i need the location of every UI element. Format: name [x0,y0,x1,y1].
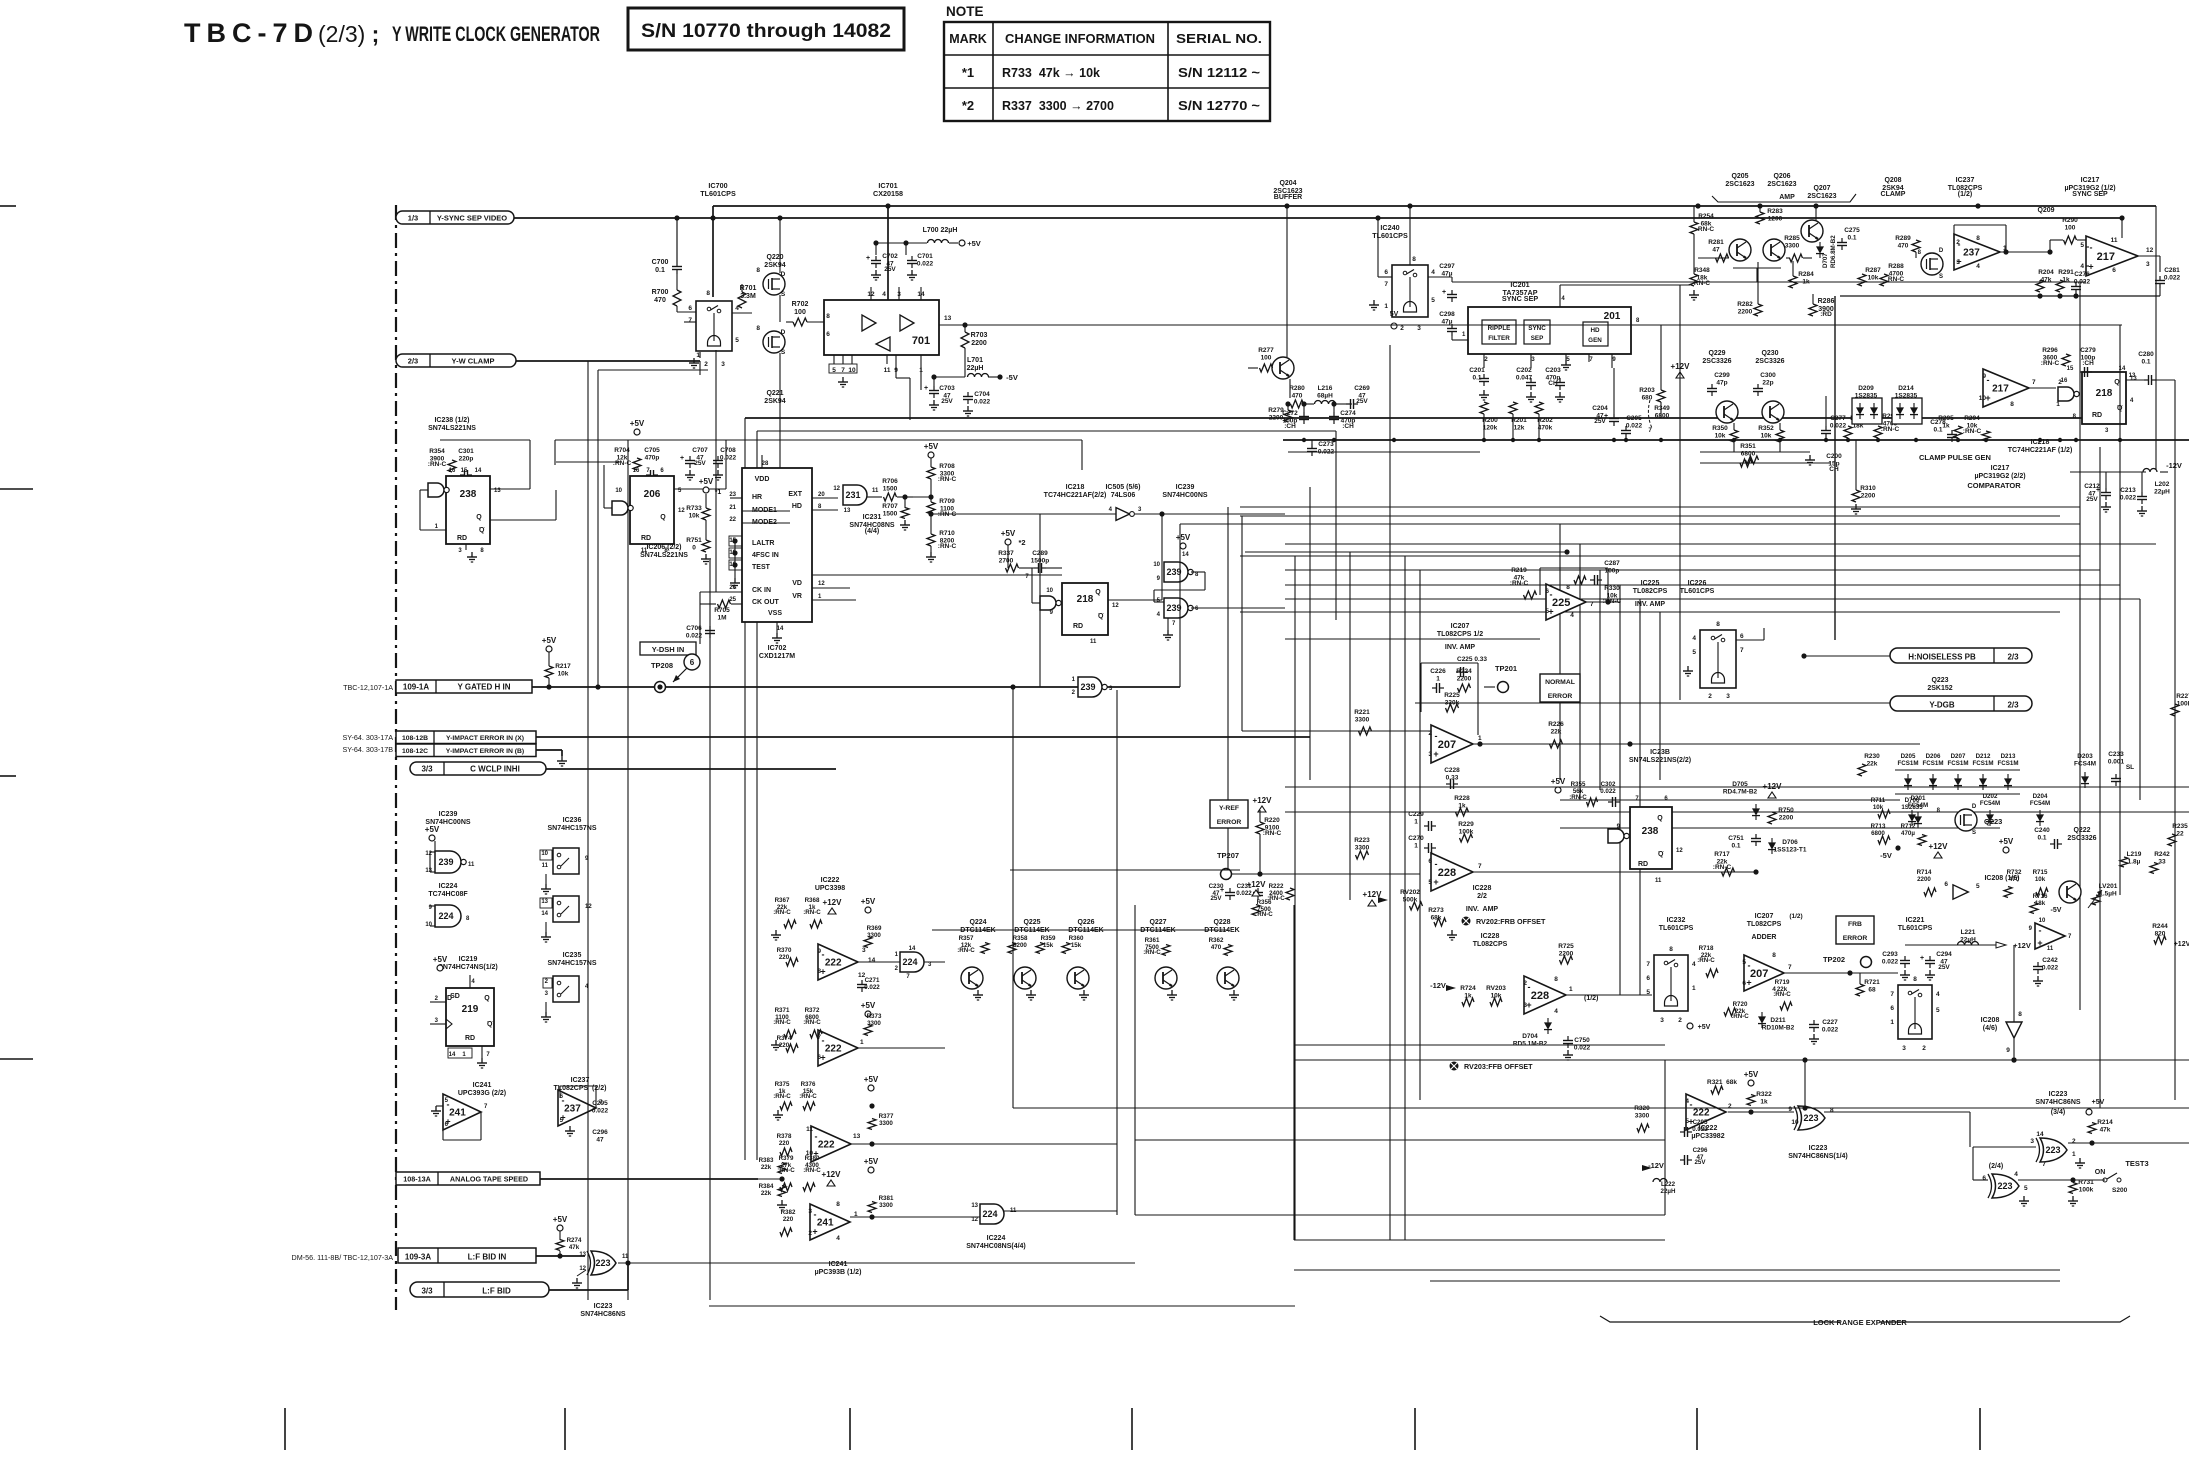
svg-text:VSS: VSS [768,610,782,617]
wire 237 out [2000,251,2050,253]
svg-text:LV201: LV201 [2099,883,2118,890]
flag 3/3 L:F BID [410,1282,549,1297]
svg-text:R358: R358 [1013,935,1028,942]
svg-text:217: 217 [1992,384,2009,395]
wire mesh h6 [1285,638,1540,640]
svg-text:2: 2 [1956,239,1960,246]
resistor R703 2200 [961,332,969,348]
svg-text:11: 11 [542,863,549,869]
svg-text:4: 4 [1692,961,1696,968]
wire 217 inputs [2086,246,2089,248]
svg-text:4: 4 [1431,269,1435,276]
svg-text:7: 7 [1646,961,1650,968]
svg-text:2SC3326: 2SC3326 [1755,358,1784,365]
gate at 218 input [1040,596,1056,610]
svg-text:4: 4 [1692,635,1696,642]
svg-text:10: 10 [1046,588,1053,594]
wire IC238 input [420,489,428,491]
svg-text:S: S [1939,274,1943,280]
wire mesh h5 [1240,611,2060,613]
wire amp line y262 [1690,261,1700,263]
wire vertical x1665 [1664,1060,1666,1215]
svg-text:+5V: +5V [630,419,645,428]
svg-text:IC207: IC207 [1755,913,1774,920]
svg-text:+12V: +12V [1253,796,1273,805]
capacitor C703 47 25V [929,390,939,392]
svg-text:R702: R702 [792,301,809,308]
svg-text:68µH: 68µH [1317,392,1333,399]
svg-text:-5V: -5V [1006,373,1018,382]
power +5V right [2003,847,2009,853]
amp C inverted inside IC701 [876,337,890,351]
svg-text:R376: R376 [801,1081,816,1088]
wire mesh v7 [1559,524,1561,780]
ground C701 [911,270,913,275]
svg-text:R374: R374 [777,1035,792,1042]
svg-text:239: 239 [438,857,453,867]
svg-text:S: S [781,349,786,356]
svg-text:225: 225 [1552,597,1570,609]
svg-text:VDD: VDD [755,476,770,483]
svg-text:R716: R716 [2033,893,2048,900]
wire gate239 input loop [434,841,436,852]
svg-text:R227: R227 [2176,693,2189,700]
svg-text:D707: D707 [1822,253,1829,268]
svg-text:R709: R709 [939,498,955,505]
wire Q220 drain [779,266,781,273]
svg-text:R711: R711 [1871,797,1886,804]
svg-text:IC207: IC207 [1451,623,1470,630]
wire transistor row base bus [938,972,962,974]
ground Y-IMPACT stub [561,756,563,761]
svg-text:217: 217 [2097,251,2115,263]
svg-text:CLAMP PULSE GEN: CLAMP PULSE GEN [1919,453,1991,462]
svg-text:2200: 2200 [1917,876,1931,883]
wire mesh v1 [1294,556,1296,1240]
svg-text:R371: R371 [775,1007,790,1014]
flag 109-3A L:F BID IN [398,1248,536,1263]
op-amp IC237 237 [1954,234,2000,270]
wire 207 in [1242,730,1431,732]
arrow from circled 6 [673,668,687,682]
svg-text:201: 201 [1604,311,1621,322]
power +12V L221 [1996,942,2006,948]
svg-text::RN-C: :RN-C [428,461,447,468]
svg-text:25V: 25V [2086,496,2098,503]
svg-text:11: 11 [806,1126,813,1133]
svg-text:R383: R383 [759,1157,774,1164]
power +12V D705 [1768,792,1776,798]
wire mesh v6 [1419,570,1421,1100]
ground mux b [545,922,547,932]
svg-text:S: S [781,291,786,298]
wire long bus y452 [1288,451,1480,453]
svg-text:R732: R732 [2007,869,2022,876]
ground C707 [689,470,691,475]
svg-text:25V: 25V [694,460,706,467]
svg-text:C296: C296 [1693,1147,1708,1154]
wire y737 extension right [1309,725,1311,737]
svg-text:Q230: Q230 [1761,350,1778,357]
flag 1/3 Y-SYNC SEP VIDEO [396,211,514,224]
svg-text:470: 470 [2009,876,2020,883]
wire 223 out [618,1262,1135,1264]
HD GEN sub-box [1583,322,1608,346]
svg-text:11: 11 [1090,639,1097,645]
svg-text:HD: HD [792,503,802,510]
wire 228b out [1566,994,1652,996]
svg-text:4: 4 [836,1235,840,1242]
svg-text:12: 12 [678,508,685,514]
junction R217 on Y GATED bus [546,684,551,689]
svg-text:231: 231 [845,490,860,500]
svg-text:Y-IMPACT ERROR IN (X): Y-IMPACT ERROR IN (X) [446,735,524,742]
wire horizontal y1060 long [1294,1059,2189,1061]
svg-text:R330: R330 [1604,585,1620,592]
wire IC206 input [604,507,612,509]
wire Q out right [2156,379,2175,381]
svg-text:-: - [1987,375,1990,385]
svg-text:10: 10 [1791,1119,1799,1126]
svg-text:5: 5 [2024,1185,2028,1192]
svg-text:2SC3326: 2SC3326 [1702,358,1731,365]
wire ANALOG TAPE SPEED riser [758,1178,782,1180]
svg-text:R375: R375 [775,1081,790,1088]
svg-text:LOCK RANGE EXPANDER: LOCK RANGE EXPANDER [1813,1318,1907,1327]
left margin register tick marks [0,205,16,207]
svg-text:+12V: +12V [2174,941,2189,948]
wire 237 feedback box [1953,225,1955,244]
svg-text:R359: R359 [1041,935,1056,942]
svg-text:10: 10 [615,488,622,494]
svg-text:C703: C703 [939,385,955,392]
svg-text::RN-C: :RN-C [957,947,975,954]
clock wedge [446,1019,452,1029]
op-amp 222d [1686,1094,1726,1130]
gate IC239 NAND b [1164,598,1188,618]
svg-text:238: 238 [1642,826,1659,837]
ground IC226 [1688,663,1700,665]
svg-text:R284: R284 [1798,271,1814,278]
wire y452 mid [1700,451,1810,453]
svg-text:C279: C279 [2080,347,2096,354]
wire R277 input [1248,367,1258,369]
ground R375 [777,1110,779,1115]
svg-text:+: + [1442,289,1446,296]
svg-text:µPC319G2 (2/2): µPC319G2 (2/2) [1974,473,2025,480]
svg-text:+12V: +12V [1763,782,1783,791]
svg-text:IC237: IC237 [1956,177,1975,184]
diode D705 [1752,808,1760,815]
svg-text:4: 4 [882,291,886,298]
svg-text:C700: C700 [652,259,669,266]
svg-text:S/N 10770 through 14082: S/N 10770 through 14082 [641,20,891,42]
wire IC701 to IC240 line [965,324,1392,326]
power +5V IC239 [1180,543,1186,549]
svg-text:4FSC IN: 4FSC IN [752,552,779,559]
svg-text:1k: 1k [1458,802,1466,809]
svg-text:L222: L222 [1661,1181,1676,1188]
svg-text:+: + [1920,955,1924,962]
svg-text:0.1: 0.1 [2141,358,2150,365]
ground IC235 [545,1002,547,1012]
svg-text:RIPPLE: RIPPLE [1488,325,1511,332]
svg-text:0.1: 0.1 [2037,834,2046,841]
wire C298 to IC201 pin1 [1451,336,1453,340]
svg-text:FCS1M: FCS1M [1923,760,1944,767]
svg-text:5: 5 [2080,242,2084,249]
svg-text:(2/4): (2/4) [1989,1163,2003,1170]
svg-text:7: 7 [1788,964,1792,971]
monostable 218 right box [2082,372,2126,424]
svg-text:R705: R705 [714,607,730,614]
monostable IC206 206 box [630,476,674,544]
gate at IC206 input [612,501,628,515]
wire vertical x1835 dark [1834,296,1836,640]
svg-text:R372: R372 [805,1007,820,1014]
svg-text:3300: 3300 [1355,716,1370,723]
transistor Q227 [1155,967,1177,989]
svg-text:(1/2): (1/2) [1958,191,1972,198]
svg-text:2200: 2200 [1269,414,1284,421]
wire gate224 input loop [434,906,436,926]
svg-text:IC236: IC236 [563,817,582,824]
svg-text:10: 10 [541,851,548,857]
svg-text::RN-C: :RN-C [2041,360,2060,367]
wire bottom bus y1240 right [1294,1239,1665,1241]
svg-text:7: 7 [1384,281,1388,288]
power +5V R708 [928,452,934,458]
RIPPLE FILTER sub-box [1482,320,1516,344]
svg-text:L:F BID: L:F BID [482,1287,511,1296]
svg-text:R220: R220 [1264,817,1280,824]
wire vertical x1973b [1972,1112,1974,1147]
svg-text:SERIAL NO.: SERIAL NO. [1176,32,1262,46]
svg-text:D209: D209 [1858,385,1874,392]
wire mesh h3 [1285,584,2120,586]
flip-flop IC219 219 box [446,988,494,1046]
svg-text:R379: R379 [779,1155,794,1162]
svg-text:R719: R719 [1775,979,1790,986]
svg-text:470: 470 [1898,242,1909,249]
transistor Q204 [1272,357,1294,379]
wire long bus y440 [1283,439,2189,441]
svg-text:0.022: 0.022 [2164,274,2181,281]
svg-text::RN-C: :RN-C [1731,1013,1749,1020]
wire y867 line [1240,866,1431,868]
transistor Q230 [1762,401,1784,423]
svg-text:R354: R354 [429,448,445,455]
svg-text:R377: R377 [879,1113,894,1120]
svg-text:RV202:FRB OFFSET: RV202:FRB OFFSET [1476,917,1546,926]
svg-text:(4/4): (4/4) [865,528,879,535]
svg-text::CH: :CH [2082,360,2094,367]
svg-text:10k: 10k [1868,274,1879,281]
wire TP207 line [1232,873,1420,875]
svg-text:6: 6 [1982,1175,1986,1182]
svg-text:100: 100 [1261,354,1272,361]
wire mesh v2 [1309,487,1311,780]
svg-text::RN-C: :RN-C [613,460,632,467]
svg-text:470p: 470p [645,454,660,461]
wire right margin v6 [2174,470,2176,1100]
wire 207 out [1473,743,1920,745]
svg-text:(3/4): (3/4) [2051,1109,2065,1116]
svg-text:SN74LS221NS: SN74LS221NS [428,425,476,432]
svg-text:IC241: IC241 [829,1261,848,1268]
inverter IC505 [1116,508,1130,521]
gate 239 on Y GATED line [1078,677,1102,697]
svg-text:470k: 470k [1538,424,1553,431]
svg-text:IC239: IC239 [439,811,458,818]
svg-text:SN74LS221NS: SN74LS221NS [640,552,688,559]
svg-text:S: S [1972,830,1976,836]
svg-text:25V: 25V [1938,964,1950,971]
svg-text:SN74HC00NS: SN74HC00NS [1162,492,1207,499]
svg-text:4: 4 [1936,991,1940,998]
svg-text:10k: 10k [1715,432,1726,439]
svg-text:+12V: +12V [2013,941,2031,950]
wire y282 long [1452,281,2086,283]
svg-text:D: D [1939,248,1944,254]
junction pins LALTR [732,538,737,543]
svg-text:5: 5 [1685,1118,1689,1125]
svg-text:47k: 47k [2100,1126,2111,1133]
wire into H:NOISELESS flag [1804,655,1890,657]
svg-text:0.1: 0.1 [1933,426,1942,433]
svg-text:(2/3) ;: (2/3) ; [318,21,386,47]
transistor Q222 [2059,881,2081,903]
svg-text:7: 7 [1478,863,1482,870]
svg-text::RN-C: :RN-C [938,543,957,550]
svg-text:Q: Q [479,527,485,534]
junction top bus Q204 [1284,203,1289,208]
op-amp IC207 207 [1431,725,1473,763]
svg-text::RN-C: :RN-C [1143,949,1161,956]
svg-text:+12V: +12V [823,898,843,907]
svg-text:1/3: 1/3 [408,214,418,223]
wire bottom bus y1306 [709,1305,1295,1307]
ground xor right [2079,1158,2081,1163]
svg-text:R713: R713 [1871,823,1886,830]
svg-text:R235: R235 [2172,823,2188,830]
svg-text:R200: R200 [1482,417,1498,424]
power +5V R217 [546,646,552,652]
power +5V R322 [1748,1080,1754,1086]
gate 239 lower-left [435,851,461,873]
wire IC206 Q to IC702 [674,488,726,490]
svg-text:8: 8 [1913,976,1917,983]
svg-text:10: 10 [425,922,432,928]
svg-text:25V: 25V [941,398,953,405]
wire mesh v3c [1227,507,1229,880]
svg-text:1k: 1k [1760,1098,1768,1105]
wire R351 line y463 [1700,462,1830,464]
svg-text:0.1: 0.1 [1847,234,1856,241]
svg-text:22: 22 [729,517,736,523]
svg-text:Y-SYNC SEP VIDEO: Y-SYNC SEP VIDEO [437,214,507,223]
svg-text:IC224: IC224 [987,1235,1006,1242]
svg-text:IC239: IC239 [1176,484,1195,491]
transistor Q226 [1067,967,1089,989]
svg-text:Y GATED H IN: Y GATED H IN [457,683,510,692]
wire 239a to 239b [1191,571,1205,573]
svg-text:3300: 3300 [879,1202,893,1209]
svg-text:-5V: -5V [1880,851,1892,860]
ground IC240 pin1 [1380,307,1392,309]
svg-text:500k: 500k [1403,896,1418,903]
svg-text:C201: C201 [1469,367,1485,374]
svg-text:1: 1 [1414,842,1418,849]
svg-text:RD: RD [1073,623,1083,630]
svg-text:S/N 12112 ~: S/N 12112 ~ [1178,66,1260,80]
svg-text:HD: HD [1590,327,1600,334]
wire Q221 line to 218 area [780,574,1062,576]
wire vertical x1294b [1293,905,1295,1240]
svg-text:8: 8 [1669,946,1673,953]
svg-text:21: 21 [729,505,736,511]
svg-text:L701: L701 [967,357,983,364]
label RV202:FRB OFFSET [1462,917,1471,926]
svg-text:207: 207 [1750,968,1768,980]
svg-text:SN74HC157NS: SN74HC157NS [547,960,596,967]
svg-text:0.022: 0.022 [1236,890,1252,897]
svg-text:COMPARATOR: COMPARATOR [1967,481,2021,490]
svg-text:H:NOISELESS PB: H:NOISELESS PB [1908,653,1976,662]
svg-text:10k: 10k [2035,876,2046,883]
wire base resistor bus [932,929,1228,931]
wire IC240 pin6 [1378,276,1392,278]
svg-text:µPC33982: µPC33982 [1691,1133,1724,1140]
svg-text::RN-C: :RN-C [799,1093,817,1100]
svg-text:108-12B: 108-12B [402,735,428,742]
analog switch IC221 [1898,985,1932,1039]
svg-text:2200: 2200 [1779,814,1794,821]
wire 207 feedback loop [1420,663,1422,712]
svg-text:TL601CPS: TL601CPS [1898,925,1933,932]
svg-text:4: 4 [1570,612,1574,619]
svg-text:R289: R289 [1895,235,1911,242]
wire mesh h y552 [1245,551,1567,553]
svg-text:SN74HC157NS: SN74HC157NS [547,825,596,832]
svg-text:R202: R202 [1537,417,1553,424]
svg-text:6800: 6800 [1741,450,1756,457]
svg-text:Q: Q [660,514,666,521]
wire 207b out to IC221 [1784,972,1898,974]
wire y877 line [1260,876,1431,878]
svg-text:1M: 1M [717,614,726,621]
svg-text:12: 12 [971,1217,978,1223]
gate IC239 NAND a [1164,562,1188,582]
svg-text:C203: C203 [1545,367,1561,374]
svg-text:ON: ON [2095,1169,2106,1176]
svg-text:R285: R285 [1784,235,1800,242]
transistor Q207 [1801,220,1823,242]
svg-text:22k: 22k [761,1190,772,1197]
svg-text:-: - [1435,859,1438,869]
svg-text:100p: 100p [1605,567,1620,574]
power +12V R356 [1252,890,1260,896]
svg-text:DM-56. 111-8B/ TBC-12,107-3A: DM-56. 111-8B/ TBC-12,107-3A [292,1253,394,1262]
svg-text:+5V: +5V [425,825,440,834]
svg-text:207: 207 [1438,739,1456,751]
svg-text:1200: 1200 [1768,215,1783,222]
svg-text:12k: 12k [1514,424,1525,431]
svg-text:3: 3 [808,1208,812,1215]
svg-text:1: 1 [2072,1151,2076,1158]
svg-text::RN-C: :RN-C [1963,428,1982,435]
svg-text:1500: 1500 [883,485,898,492]
